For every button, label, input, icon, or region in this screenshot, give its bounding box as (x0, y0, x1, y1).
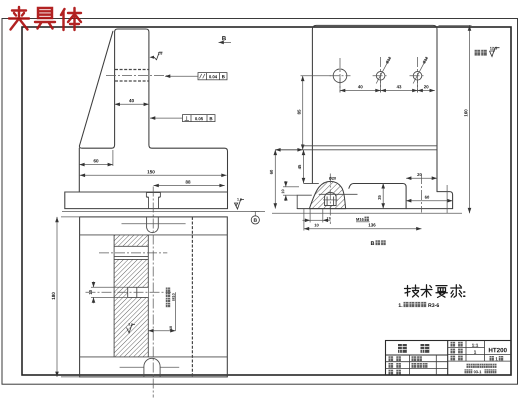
datum B symbol (251, 210, 260, 212)
red stamp title "jia ju ti" (fixture body) (9, 7, 81, 30)
roughness mark on column right edge (150, 56, 155, 59)
view B arrow (222, 36, 226, 40)
dim 60 in right block (406, 200, 453, 202)
dim 180 overall height of plan view (56, 217, 58, 377)
hole tangent line (319, 193, 358, 195)
dim 88 (154, 185, 225, 187)
dim 150 overall depth (80, 174, 227, 176)
hole spacing dims 40 / 43 / 20 (339, 78, 341, 93)
label B view (371, 241, 374, 245)
right overhang step (437, 192, 453, 209)
roughness note: qi yu 12.5 (475, 50, 481, 56)
dome centerline (329, 174, 331, 225)
sheet cell (490, 356, 494, 361)
slot centerline (99, 252, 167, 254)
title block part name cell (398, 344, 407, 353)
slot edge lines across column (114, 245, 148, 247)
hatched column section (114, 235, 148, 246)
left overhang block (297, 195, 312, 208)
main vertical centerline (152, 187, 154, 398)
base bottom edge (297, 208, 452, 210)
plan view inner wall lines (80, 234, 228, 236)
thread note M16 (356, 218, 363, 221)
dim 60 left vertical (274, 150, 276, 209)
school name two lines (467, 364, 471, 368)
parallelism tolerance frame // 0.04 B (198, 73, 227, 80)
tech requirement line 1: casting fillet R3-6 (399, 303, 403, 307)
thread label M10 (rotated blob) (166, 288, 170, 292)
dim 136 bottom (303, 209, 305, 231)
dim 40 column width (115, 103, 149, 105)
bottom U-notch (144, 358, 160, 377)
top U-notch (key slot opening) (147, 217, 159, 233)
dim 35 middle (382, 183, 384, 208)
roughness check inside column (127, 325, 135, 333)
small dim at left block (283, 186, 299, 188)
B view plate outline (312, 25, 437, 191)
ground extension line (272, 212, 462, 214)
leader for parallelism frame (165, 75, 198, 77)
right block hole centerline (421, 174, 423, 213)
dia 20 label (329, 177, 336, 180)
deck line left of dome (304, 183, 319, 185)
dim 60 (79, 164, 113, 166)
hole 1 (333, 69, 347, 83)
title block grid (386, 341, 512, 376)
leader for perpendicularity frame (150, 117, 183, 119)
dim 10 for hole (91, 286, 128, 288)
dome hole (white, with thread lines) (325, 193, 337, 206)
tech requirements heading (drawn strokes) (405, 285, 465, 298)
border frame inner (22, 27, 511, 375)
hatched dome boss (309, 181, 345, 208)
T-slot key boss under base (146, 192, 160, 209)
dim 20 above right step (406, 177, 437, 179)
hole 2 (376, 72, 385, 81)
dim 160 overall height right (439, 24, 472, 26)
center hole feature in column (128, 287, 148, 297)
plan view outer rectangle (80, 217, 228, 377)
hidden hole dashed lines in column (115, 69, 149, 71)
scale / qty / material cells (451, 342, 456, 347)
leader + small dim at lower right of column (175, 292, 177, 330)
dim 45 second vertical (303, 150, 305, 183)
roughness symbol 1.6 on base bottom (235, 200, 245, 210)
base internal step line (65, 191, 228, 193)
dim 85 left (301, 75, 332, 77)
title block row labels + names (389, 356, 394, 361)
base top edge lines (303, 145, 437, 147)
bottom small dims 10 / 17 (309, 209, 311, 223)
extension lines for 60/150 (112, 150, 114, 166)
deck line right of dome (349, 184, 406, 209)
hole centerline (106, 75, 167, 77)
ground extension line under base (62, 210, 265, 212)
hole 3 (413, 72, 422, 81)
hidden edge dashed vertical (191, 217, 193, 377)
side view outline: column + base (65, 29, 228, 209)
perpendicularity tolerance frame 0.05 B (183, 115, 216, 122)
